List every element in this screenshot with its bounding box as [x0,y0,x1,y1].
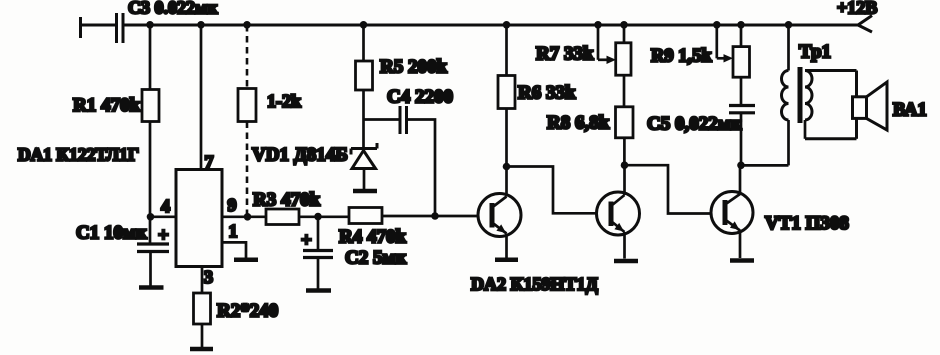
wire pin9 [222,215,266,218]
speaker BA1 [853,82,888,130]
svg-text:VD1 Д814Б: VD1 Д814Б [252,145,348,166]
wire [149,122,152,245]
wire [740,77,743,104]
svg-text:R1 470k: R1 470k [73,95,140,116]
svg-text:С5 0,022мк: С5 0,022мк [647,114,742,135]
svg-text:R6 33k: R6 33k [518,83,576,104]
ground DA2b [614,259,638,264]
svg-text:4: 4 [161,196,170,216]
wire [149,252,152,287]
wire [363,169,366,190]
capacitor C2 [301,230,333,258]
node rail-Tp1 [785,21,793,29]
wire node to transformer [741,164,789,167]
node rail-pin7 [197,21,205,29]
ground VT1 [730,258,754,263]
svg-text:R9 1,5k: R9 1,5k [651,47,712,67]
svg-text:+: + [301,230,312,251]
transistor VT1 [711,165,753,258]
wire [81,24,116,27]
node rail-R7 [620,21,628,29]
node C2 [314,213,322,221]
node rail-R6 [503,21,511,29]
transistor DA2b [597,165,640,258]
svg-text:С1 10мк: С1 10мк [76,223,147,244]
ground C2 [306,288,331,293]
wire R6 branch [505,25,508,76]
capacitor C3 [117,13,124,43]
wire pin7 [200,25,203,170]
R7 wiper arrow [598,25,616,64]
wire [201,324,204,347]
wire R5 branch [362,25,365,61]
wire [740,113,743,166]
ground DA2a [495,258,518,263]
wire C4 to node [407,120,436,217]
resistor R5 [356,61,373,90]
svg-text:C4 2200: C4 2200 [387,87,453,108]
wire [362,90,365,149]
wire [149,25,152,90]
resistor R2 [194,293,211,324]
ground R2 [190,347,213,352]
ground C1 [139,285,164,290]
wire R7 branch [623,25,626,43]
wire to C4 [364,118,400,121]
resistor R1 [142,90,159,122]
svg-text:1: 1 [229,221,238,241]
wire collector2 to base VT1 [625,165,712,213]
svg-text:+: + [158,225,169,246]
wire [505,109,508,167]
svg-text:R3 470k: R3 470k [253,190,320,211]
node rail-R9wiper [713,21,721,29]
svg-text:С3 0.022мк: С3 0.022мк [128,0,218,18]
svg-text:R8 6,8k: R8 6,8k [547,113,610,134]
wire pin3 [201,267,204,294]
svg-text:R7 33k: R7 33k [536,44,594,65]
wire [317,258,320,290]
svg-text:R5 200k: R5 200k [380,57,447,78]
zener diode VD1 [351,143,377,169]
svg-text:С2 5мк: С2 5мк [345,248,406,269]
transformer Tp1 secondary [805,71,812,139]
capacitor C4 [400,106,407,134]
capacitor C1 [137,225,169,252]
svg-text:R4 470k: R4 470k [339,227,406,248]
transistor DA2a [478,167,521,258]
svg-text:7: 7 [205,152,214,172]
node collector2 [621,161,629,169]
op-amp DA1 box [176,170,222,267]
svg-text:ВА1: ВА1 [893,101,927,121]
wire [299,215,349,218]
wire to transistor base [382,215,479,218]
ground pin1 [234,258,258,263]
wire pin4 [151,215,177,218]
wire collector1 to base2 [507,167,597,214]
node rail-R5 [360,21,368,29]
resistor 1-2k [238,89,256,122]
node rail-R7wiper [594,21,602,29]
svg-text:DA2 К159НТ1Д: DA2 К159НТ1Д [471,274,599,294]
node pin9-VD1 [244,213,252,221]
svg-text:R2*240: R2*240 [217,301,278,322]
svg-text:Тр1: Тр1 [799,42,831,63]
resistor R4 [349,208,382,224]
wire R9 branch [740,25,743,47]
node rail-R1 [146,21,154,29]
node collector1 [503,163,511,171]
input terminal [79,17,82,38]
svg-text:3: 3 [204,267,213,287]
node collector VT1 [737,162,745,170]
capacitor C5 [729,106,755,113]
node R4-C4 [431,212,439,220]
transformer Tp1 primary [782,25,789,165]
transformer core [798,67,803,123]
svg-text:9: 9 [228,195,237,215]
wire pin1 [222,242,246,257]
resistor R9 (variable) [733,47,750,78]
wire dashed to 1-2k [246,25,249,89]
wire [623,138,626,165]
resistor R8 [616,107,634,138]
resistor R6 [498,76,515,109]
svg-text:VT1 П308: VT1 П308 [765,213,849,234]
wire [623,75,626,107]
resistor R7 (variable) [616,43,631,75]
node rail-R9 [737,21,745,29]
wire speaker loop [805,71,857,139]
svg-text:+12В: +12В [837,0,877,18]
resistor R3 [266,209,299,225]
wire +12V top rail [123,24,858,27]
R9 wiper arrow [717,25,733,63]
node rail-1-2k [243,21,251,29]
wire [317,217,320,250]
wire dashed [246,122,249,215]
ground VD1 [353,189,377,194]
+12V arrow [858,16,872,33]
svg-text:DA1 К122ТЛ1Г: DA1 К122ТЛ1Г [18,145,139,165]
node pin4 [147,213,155,221]
svg-text:1-2k: 1-2k [267,91,301,111]
